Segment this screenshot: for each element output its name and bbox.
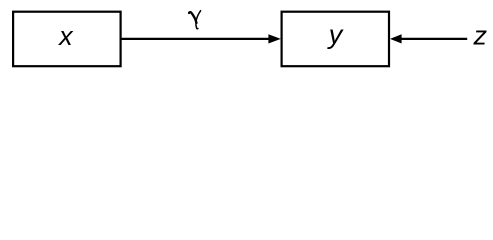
svg-text:y: y <box>327 20 344 50</box>
label gamma on wire x->y <box>189 11 201 29</box>
block y (box) <box>282 12 389 66</box>
label z <box>472 21 487 51</box>
label y <box>327 20 344 50</box>
wire: arrow from z into block y <box>390 34 467 43</box>
wire: arrow from block x to block y <box>121 34 281 43</box>
svg-text:z: z <box>472 21 487 51</box>
block x (box) <box>13 12 121 66</box>
label x <box>57 21 74 51</box>
svg-text:x: x <box>57 21 74 51</box>
